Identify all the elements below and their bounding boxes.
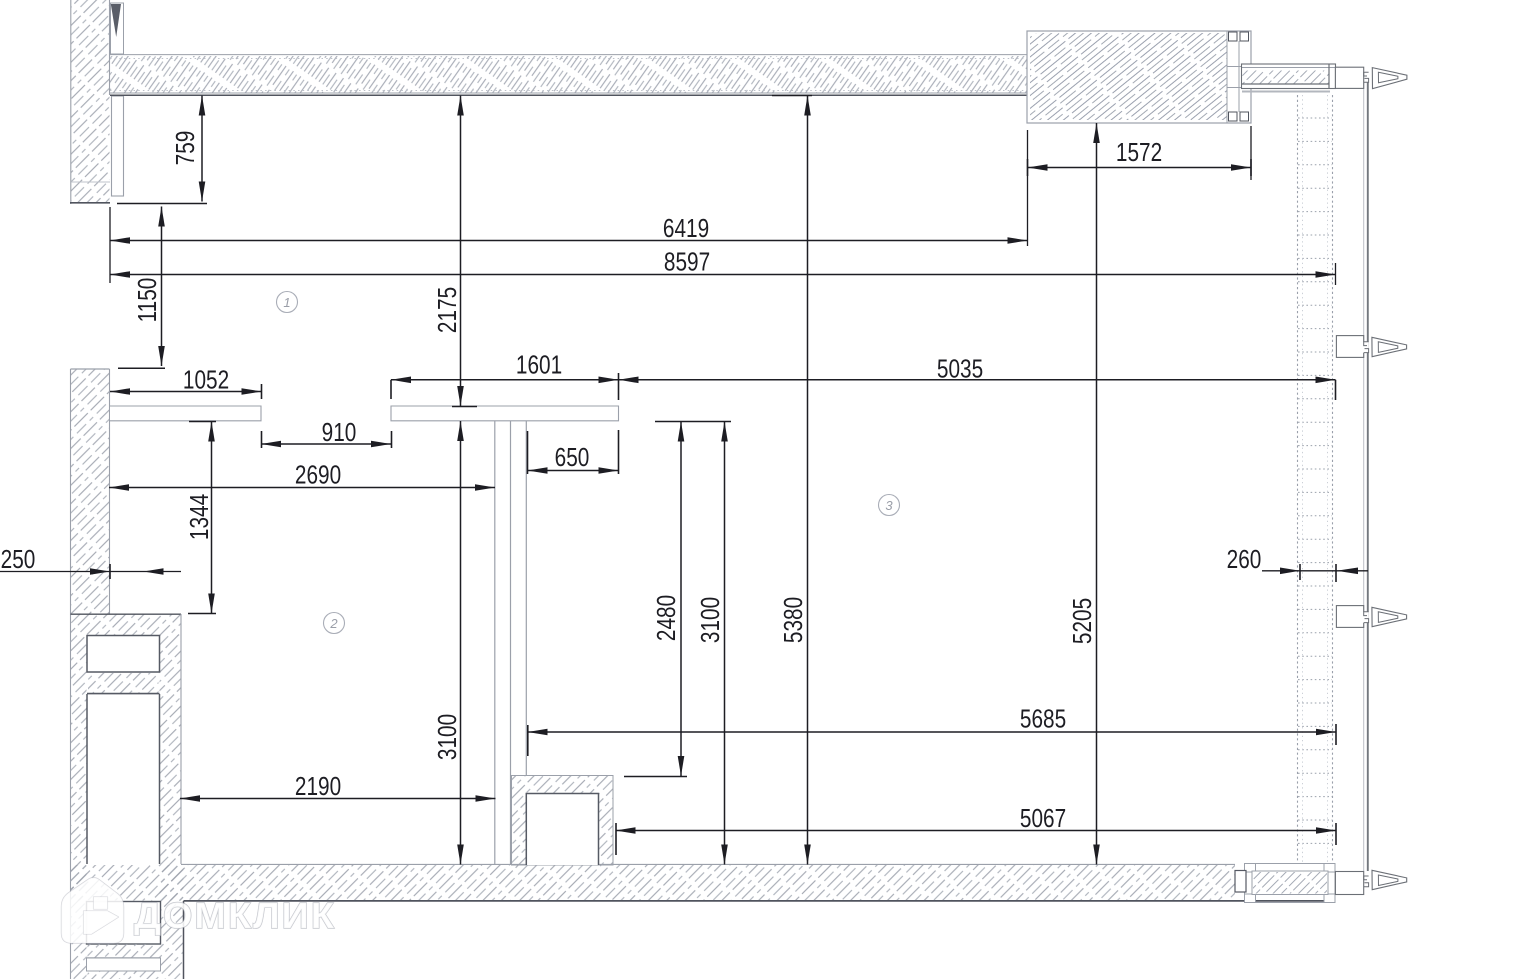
- duct channel line: [525, 421, 527, 776]
- svg-text:759: 759: [171, 131, 200, 166]
- window opening marker (right, upper middle): [1336, 336, 1363, 358]
- svg-text:1: 1: [283, 295, 290, 310]
- dimension 1344 (vertical): [211, 422, 213, 614]
- window opening marker (top right): [1335, 67, 1363, 88]
- room tag 2: [324, 613, 345, 634]
- watermark: Domclick house logo: [62, 878, 124, 943]
- dimension 3100 (vertical): [724, 422, 726, 865]
- svg-text:8597: 8597: [664, 247, 710, 276]
- dimension 2175 (vertical): [460, 96, 462, 407]
- dimension 5685 (horizontal): [528, 731, 1337, 733]
- lower-left wall continuation below bottom wall: [160, 864, 184, 979]
- glazing line (right facade): light + dark pair: [1363, 82, 1365, 871]
- dimension 2480 (vertical): [680, 422, 682, 777]
- hatched sill bar (bottom right): [1252, 871, 1328, 895]
- partition wall A (left, with door opening): [110, 406, 261, 421]
- shaft hatched divider: [88, 673, 159, 694]
- pylon door-frame squares: [1229, 32, 1238, 41]
- svg-text:1150: 1150: [133, 278, 162, 323]
- svg-text:6419: 6419: [663, 214, 709, 243]
- svg-text:2690: 2690: [295, 460, 341, 489]
- svg-text:910: 910: [322, 418, 357, 447]
- svg-text:1572: 1572: [1116, 138, 1162, 167]
- door leaf panel on pier face: [112, 96, 124, 196]
- extension line x1335.5 for 8597: [1335, 263, 1337, 285]
- dark door wedge in jamb: [111, 4, 121, 37]
- svg-text:2: 2: [329, 616, 338, 631]
- svg-text:250: 250: [1, 545, 36, 574]
- lower shaft opening (below bottom wall): [87, 902, 161, 945]
- shaft: left lower duct shaft walls: [71, 614, 87, 979]
- svg-text:5380: 5380: [779, 597, 808, 643]
- dimension 2190 (horizontal): [180, 798, 496, 800]
- dimension 1150 (vertical): [161, 207, 163, 367]
- partition wall B (right of door): [391, 406, 619, 421]
- svg-text:5035: 5035: [937, 354, 983, 383]
- svg-text:2190: 2190: [295, 772, 341, 801]
- frame corner blocks: [1245, 864, 1256, 873]
- dimension 650 (horizontal): [528, 470, 619, 472]
- shaft duct opening (lower): [87, 694, 160, 864]
- dimension 5205 (vertical): [1096, 123, 1098, 865]
- room tag 3: [879, 495, 900, 516]
- svg-text:260: 260: [1227, 545, 1262, 574]
- dimension 1572 (horizontal): [1028, 167, 1252, 169]
- svg-text:1344: 1344: [185, 494, 214, 540]
- dimension 1052 (horizontal): [110, 391, 262, 393]
- dimension 5380 (vertical): [807, 96, 809, 865]
- svg-text:3100: 3100: [433, 714, 462, 760]
- sill left attachment block: [1235, 871, 1246, 893]
- extension line at wall top for 1150: [118, 367, 165, 369]
- dimension 910 (horizontal): [261, 443, 391, 445]
- partition wall vertical (room divider): [494, 421, 496, 865]
- dimension 260 (parapet thickness): [1262, 570, 1368, 572]
- dimension 1601 (horizontal): [391, 379, 619, 381]
- window opening marker (bottom right): [1364, 876, 1369, 887]
- window opening marker (right, lower middle): [1336, 606, 1363, 628]
- svg-text:ДОМКЛИК: ДОМКЛИК: [134, 895, 336, 936]
- window sill bar top-right (hatched): [1242, 64, 1336, 89]
- wall: bottom exterior wall (hatched band): [71, 865, 1236, 901]
- svg-text:1052: 1052: [183, 365, 229, 394]
- svg-text:5067: 5067: [1020, 804, 1066, 833]
- svg-text:5205: 5205: [1068, 598, 1097, 644]
- svg-text:1601: 1601: [516, 350, 562, 379]
- room tag 1: [277, 292, 298, 313]
- wall: left exterior wall (hatched): [71, 369, 110, 614]
- shaft duct opening (upper): [87, 636, 160, 673]
- balcony parapet dotted ladder strip: [1298, 95, 1333, 862]
- dimension 2690 (horizontal): [109, 487, 495, 489]
- dimension 8597 (horizontal): [110, 274, 1336, 276]
- extension line x110 for 6419/8597: [109, 207, 111, 283]
- wall: top-left exterior pier (hatched): [71, 0, 110, 202]
- extension line x1027.5 for 1572/6419: [1027, 130, 1029, 246]
- svg-text:2480: 2480: [652, 595, 681, 641]
- svg-text:650: 650: [555, 443, 590, 472]
- svg-text:5685: 5685: [1020, 704, 1066, 733]
- bottom-right window frame outline: [1245, 864, 1336, 903]
- hatched duct box (bottom of divider): [512, 776, 614, 866]
- window frame bar right of sill: [1335, 872, 1363, 895]
- dimension 5035 (horizontal): [619, 379, 1336, 381]
- dimension 250 (left wall thickness): [0, 571, 181, 573]
- svg-text:2175: 2175: [433, 287, 462, 333]
- dimension 759 (vertical): [201, 96, 203, 202]
- dimension 5067 (horizontal): [616, 830, 1337, 832]
- extension line below 759 / above 1150: [117, 203, 207, 205]
- svg-text:3: 3: [885, 498, 893, 513]
- wall: top exterior wall (hatched band): [110, 54, 1027, 56]
- extension line x1251 for 1572: [1250, 126, 1252, 180]
- door jamb recess at top-left pier: [111, 3, 124, 54]
- svg-text:3100: 3100: [696, 597, 725, 643]
- dimension 6419 (horizontal): [110, 240, 1028, 242]
- dimension 3100 (vertical): [460, 421, 462, 865]
- wall: top-right pylon block (dense hatch): [1027, 31, 1251, 123]
